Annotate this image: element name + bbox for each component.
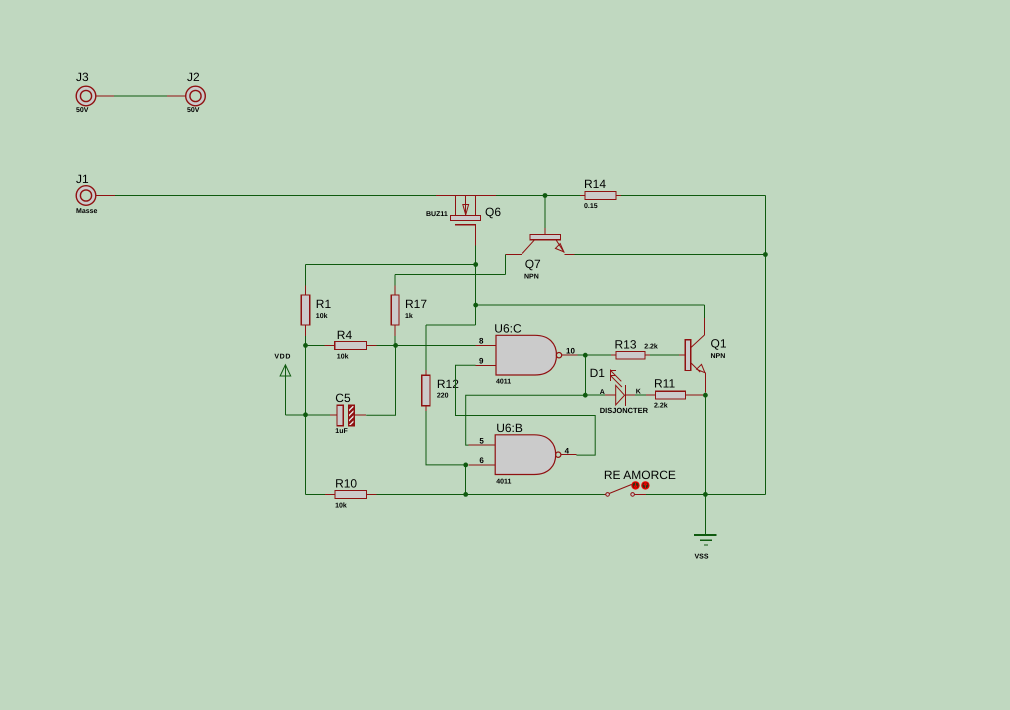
resistor R11 xyxy=(646,391,703,399)
svg-text:5: 5 xyxy=(479,436,484,445)
wire rail at y264 to R1 xyxy=(306,264,476,266)
svg-text:J3: J3 xyxy=(76,70,89,84)
wire C5 right up xyxy=(366,345,395,415)
wire R17 top vertical xyxy=(394,275,396,286)
svg-text:K: K xyxy=(636,389,641,396)
svg-text:50V: 50V xyxy=(76,107,89,114)
svg-text:4: 4 xyxy=(565,447,570,456)
node right rail / Q7 emitter xyxy=(763,252,768,257)
svg-text:50V: 50V xyxy=(187,107,200,114)
node bottom/pin6 xyxy=(463,492,468,497)
resistor R1 xyxy=(301,286,309,337)
svg-text:R11: R11 xyxy=(654,377,675,391)
wire R4 right xyxy=(377,344,396,346)
wire J3-J2 xyxy=(114,95,167,97)
svg-text:J2: J2 xyxy=(187,70,200,84)
power VDD xyxy=(280,365,305,415)
svg-text:NPN: NPN xyxy=(524,274,539,281)
wire D1 to R11 xyxy=(635,394,646,396)
capacitor C5 xyxy=(306,405,367,426)
svg-text:RE AMORCE: RE AMORCE xyxy=(604,468,676,482)
node gate rail xyxy=(473,262,478,267)
node R11/Q1 emitter xyxy=(703,393,708,398)
svg-text:220: 220 xyxy=(437,393,449,400)
svg-text:R10: R10 xyxy=(335,476,357,490)
svg-text:Q6: Q6 xyxy=(485,205,501,219)
svg-text:6: 6 xyxy=(479,456,484,465)
node R1/R4 xyxy=(303,343,308,348)
svg-text:0.15: 0.15 xyxy=(584,203,598,210)
svg-text:2.2k: 2.2k xyxy=(644,343,658,351)
wire anode net to pin5 xyxy=(466,395,586,445)
svg-text:R17: R17 xyxy=(405,297,427,311)
svg-text:4011: 4011 xyxy=(496,379,511,386)
wire top rail R14 to right edge xyxy=(621,195,765,197)
wire bottom rail left xyxy=(306,493,325,495)
resistor R4 xyxy=(325,342,377,350)
wire Q7 collector down xyxy=(505,255,507,275)
wire top rail Q6 to R14 xyxy=(496,195,580,197)
wire R1 node down xyxy=(305,345,307,494)
svg-text:VSS: VSS xyxy=(695,554,709,561)
connector J2 xyxy=(167,86,205,106)
resistor R14 xyxy=(580,192,621,200)
switch actuator buttons xyxy=(631,481,649,489)
node U6C out xyxy=(583,353,588,358)
wire Q1 collector vertical xyxy=(704,305,706,318)
ground VSS xyxy=(694,494,717,545)
wire R1 bottom xyxy=(305,336,307,345)
transistor Q7 xyxy=(506,196,575,255)
svg-text:U6:B: U6:B xyxy=(496,421,523,435)
wire U6C out to node xyxy=(578,354,586,356)
svg-text:J1: J1 xyxy=(76,172,89,186)
wire pin9 net xyxy=(456,365,596,455)
svg-text:NPN: NPN xyxy=(711,353,726,360)
resistor R12 xyxy=(422,370,430,411)
gate U6:B xyxy=(469,435,577,475)
connector J3 xyxy=(76,86,114,106)
transistor Q6 (BUZ11 MOSFET) xyxy=(451,196,481,246)
wire R4 left xyxy=(306,344,325,346)
svg-text:1uF: 1uF xyxy=(335,428,348,435)
wire top rail J1 to Q6 xyxy=(115,195,436,197)
node D1 anode xyxy=(583,393,588,398)
transistor Q1 xyxy=(679,318,706,393)
svg-text:4011: 4011 xyxy=(496,479,511,486)
switch RE AMORCE xyxy=(604,485,645,497)
wire R12 top vertical xyxy=(425,325,427,370)
node top rail / Q7 base xyxy=(543,193,548,198)
resistor R13 xyxy=(585,352,650,359)
wire collector feed to Q1 xyxy=(476,304,705,306)
svg-text:Masse: Masse xyxy=(76,208,98,215)
wire Q7 collector to R17 top xyxy=(395,274,506,276)
svg-text:9: 9 xyxy=(479,356,484,365)
svg-text:10: 10 xyxy=(566,347,575,356)
svg-text:D1: D1 xyxy=(590,366,606,380)
connector J1 xyxy=(76,186,115,206)
wire bottom rail right xyxy=(646,493,766,495)
svg-text:2.2k: 2.2k xyxy=(654,402,668,410)
svg-text:U6:C: U6:C xyxy=(494,322,522,336)
wire node down xyxy=(584,355,586,395)
svg-text:A: A xyxy=(600,389,605,396)
diode D1 (LED) xyxy=(585,369,635,405)
wire Q6 red segment of top rail xyxy=(436,195,496,197)
gate U6:C xyxy=(476,335,578,375)
svg-text:C5: C5 xyxy=(335,391,351,405)
svg-text:1k: 1k xyxy=(405,312,413,320)
svg-text:10k: 10k xyxy=(335,502,347,510)
svg-text:DISJONCTER: DISJONCTER xyxy=(600,406,649,415)
wire 475 turn to R12 xyxy=(426,324,476,326)
svg-text:Q1: Q1 xyxy=(711,337,727,351)
wire pin8 net xyxy=(396,344,476,346)
svg-text:10k: 10k xyxy=(337,353,349,361)
wire R17 bottom xyxy=(394,336,396,345)
resistor R17 xyxy=(391,285,399,336)
node R4/R17/C5/pin8 xyxy=(393,343,398,348)
wire Q7 emitter to right rail xyxy=(574,254,765,256)
wire R12 bottom to pin6 xyxy=(426,411,463,465)
resistor R10 xyxy=(325,491,377,499)
svg-text:8: 8 xyxy=(479,337,484,346)
wire emitter node down xyxy=(704,395,706,494)
node collector feed xyxy=(473,303,478,308)
node pin6 xyxy=(463,463,468,468)
node ground junction xyxy=(703,492,708,497)
svg-text:BUZ11: BUZ11 xyxy=(426,211,448,218)
wire R13 to Q1 base xyxy=(650,354,679,356)
node VDD/C5 xyxy=(303,412,308,417)
svg-text:R14: R14 xyxy=(584,177,606,191)
wire right vertical rail xyxy=(764,196,766,495)
svg-text:Q7: Q7 xyxy=(525,257,541,271)
wire bottom rail mid xyxy=(377,493,605,495)
wire R1 top xyxy=(305,265,307,286)
svg-text:R1: R1 xyxy=(316,297,332,311)
wire pin6 down xyxy=(465,465,467,495)
svg-text:10k: 10k xyxy=(316,312,328,320)
svg-text:R4: R4 xyxy=(337,328,353,342)
wire vertical 475 down to node 305 xyxy=(475,265,477,326)
svg-text:R13: R13 xyxy=(615,338,637,352)
svg-text:VDD: VDD xyxy=(274,354,291,361)
wire Q6 gate down xyxy=(475,245,477,264)
